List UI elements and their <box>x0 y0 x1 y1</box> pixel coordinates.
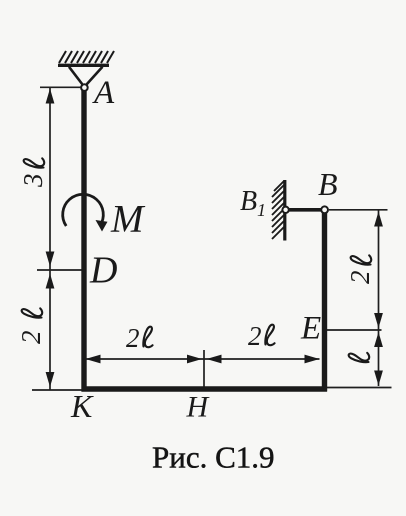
svg-text:A: A <box>92 75 115 111</box>
svg-text:D: D <box>89 250 117 292</box>
svg-text:E: E <box>300 311 321 347</box>
svg-text:2: 2 <box>126 323 140 353</box>
svg-text:1: 1 <box>257 200 266 220</box>
svg-text:3: 3 <box>18 174 48 189</box>
svg-text:K: K <box>70 388 94 424</box>
svg-text:2: 2 <box>16 331 46 345</box>
svg-text:M: M <box>110 198 146 241</box>
svg-text:H: H <box>186 391 211 424</box>
svg-text:Рис. С1.9: Рис. С1.9 <box>152 440 275 475</box>
svg-text:B: B <box>318 166 338 202</box>
svg-text:2: 2 <box>248 321 262 351</box>
svg-text:2: 2 <box>345 271 375 285</box>
svg-text:B: B <box>240 186 257 217</box>
